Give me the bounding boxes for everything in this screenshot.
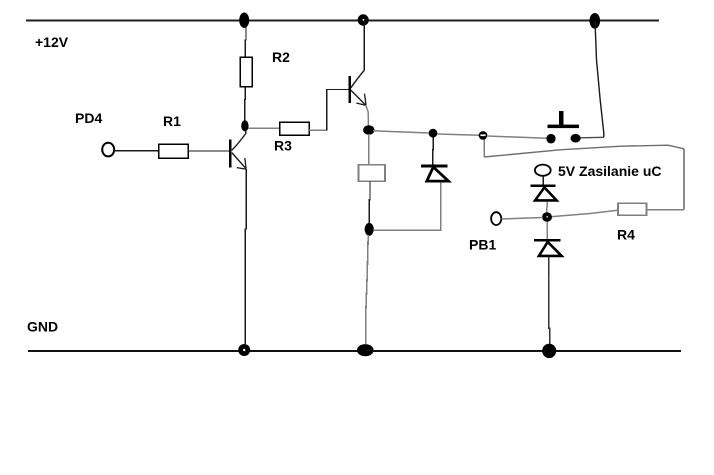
node relay bottom dot <box>365 223 374 236</box>
push button SW1 left contact <box>546 134 555 144</box>
push button SW1 right contact <box>571 134 581 143</box>
resistor R4 <box>618 203 646 215</box>
svg-text:PD4: PD4 <box>75 110 102 126</box>
svg-text:+12V: +12V <box>35 34 69 50</box>
wire node to R3 <box>248 127 280 129</box>
diode D3 triangle <box>539 242 562 256</box>
node GND dot 1 <box>238 344 250 356</box>
wire relay to node <box>368 182 371 224</box>
svg-text:5V Zasilanie uC: 5V Zasilanie uC <box>558 163 661 179</box>
node GND dot 3 <box>542 344 556 358</box>
wire top rail to Q2 collector <box>363 21 365 71</box>
transistor Q1 base bar <box>229 140 231 168</box>
wire right side down <box>683 149 685 210</box>
transistor Q2 emitter line <box>351 90 366 105</box>
wire node to diode D1 loop <box>374 182 441 230</box>
wire Q1 emitter to GND <box>245 169 246 344</box>
wire R2 bottom lead <box>244 87 247 121</box>
transistor Q1 emitter line <box>232 153 246 169</box>
wire Q2 emitter down <box>366 105 369 126</box>
GND rail <box>28 350 681 352</box>
push button SW1 bar <box>548 125 580 129</box>
wire 5V to D2 <box>542 176 544 185</box>
terminal PD4 <box>102 143 114 157</box>
svg-text:R3: R3 <box>274 137 292 153</box>
svg-text:R2: R2 <box>272 49 290 65</box>
wire R4 to PB1 node <box>548 210 619 217</box>
svg-text:GND: GND <box>27 319 58 335</box>
resistor R2 <box>240 57 252 86</box>
wire D1 to node <box>432 135 435 164</box>
diode D1 triangle <box>427 167 449 181</box>
wire across to right side <box>484 145 684 157</box>
transistor Q2 base bar <box>349 76 351 103</box>
wire to R4 <box>647 209 685 211</box>
wire PB1 to node <box>502 218 544 220</box>
wire corner up to Q2 base <box>327 90 349 131</box>
node top dot 1 <box>239 13 249 28</box>
relay coil <box>359 165 386 182</box>
wire D3 to GND <box>549 257 550 344</box>
diode D2 triangle <box>535 187 557 200</box>
transistor Q1 collector line <box>232 131 246 151</box>
wire Q2 node to D1 node <box>373 131 429 133</box>
terminal 5V <box>535 165 551 176</box>
diode D1 cathode bar <box>421 164 448 167</box>
node PB1 dot <box>542 212 552 222</box>
wire R1 to Q1 base <box>188 150 230 152</box>
node Q2 emitter dot <box>363 125 374 135</box>
resistor R1 <box>159 144 188 158</box>
wire circle to button <box>487 136 546 138</box>
node top dot 3 <box>590 13 601 29</box>
wire node to GND <box>366 235 368 344</box>
wire top rail down to button <box>595 21 604 137</box>
svg-text:R1: R1 <box>163 113 181 129</box>
wire node to D3 <box>546 222 548 240</box>
wire R3 to corner <box>309 129 327 131</box>
wire R2 top lead <box>244 21 247 58</box>
diode D2 cathode bar <box>531 184 556 187</box>
push button SW1 stem <box>559 111 564 126</box>
wire PD4 to R1 <box>114 150 159 152</box>
wire node to relay <box>368 134 370 165</box>
wire circle down <box>483 140 485 157</box>
terminal PB1 <box>491 212 501 225</box>
+12V rail <box>26 19 659 21</box>
svg-text:PB1: PB1 <box>469 236 496 252</box>
node top dot 2 <box>358 14 369 25</box>
node GND dot 2 <box>357 344 374 356</box>
svg-text:R4: R4 <box>617 226 635 242</box>
resistor R3 <box>280 122 310 135</box>
crossing node circle <box>479 131 488 140</box>
transistor Q2 collector line <box>351 71 365 89</box>
node Q1 collector dot <box>241 120 248 131</box>
wire D2 to PB1 node <box>546 202 548 213</box>
wire button right to corner <box>581 136 604 139</box>
node D1 top dot <box>429 129 438 138</box>
wire D1 node to crossing circle <box>437 134 479 135</box>
transistor Q1 emitter arrow <box>237 158 246 169</box>
diode D3 cathode bar <box>534 239 561 242</box>
transistor Q2 emitter arrow <box>356 94 366 106</box>
